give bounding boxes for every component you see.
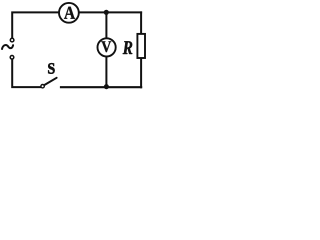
junction dot top node (104, 10, 109, 15)
wire voltmeter top lead (105, 12, 107, 38)
wire top-left segment (12, 12, 59, 37)
junction dot bottom node (104, 84, 109, 89)
voltmeter U2 circle (98, 38, 116, 56)
AC source terminal lower (10, 56, 14, 60)
switch S terminal circle (41, 85, 44, 88)
wire bottom right segment (61, 86, 141, 88)
wire right side upper (140, 12, 142, 34)
wire voltmeter bottom lead (105, 57, 107, 88)
resistor R body (137, 34, 145, 58)
switch label S (48, 63, 54, 73)
wire ammeter to top-right corner (79, 11, 141, 13)
ammeter label A (64, 7, 75, 19)
resistor label R (123, 41, 133, 54)
ammeter U1 circle (59, 3, 79, 23)
switch S blade (44, 78, 56, 85)
AC tilde symbol (2, 45, 13, 49)
wire bottom left segment (12, 60, 40, 88)
voltmeter label V (101, 41, 111, 52)
AC source terminal upper (10, 38, 14, 42)
wire right side lower (140, 58, 142, 87)
